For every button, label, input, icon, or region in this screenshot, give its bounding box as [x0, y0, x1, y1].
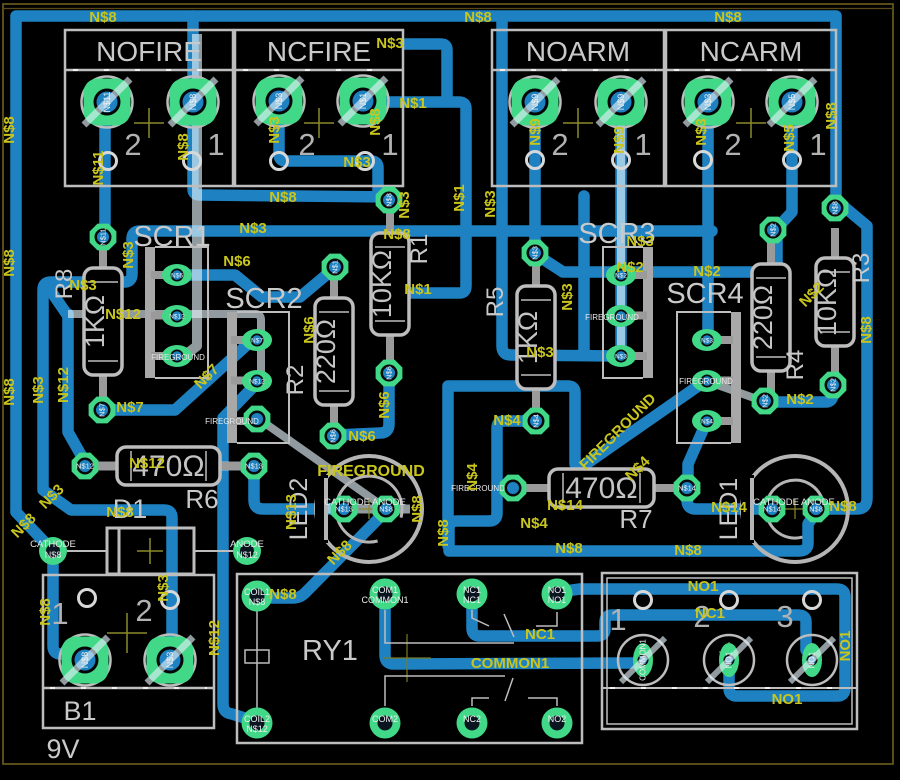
svg-text:2: 2 [124, 127, 141, 162]
svg-text:N$2: N$2 [761, 394, 770, 408]
wire N$8 NOFIRE1 up [187, 16, 199, 102]
wire N$8 LED2 diag [261, 511, 386, 598]
pad R3-top [822, 195, 849, 222]
label FIREGROUND SCR2 [205, 417, 259, 426]
net label N$8 [106, 504, 134, 521]
pad SCR2-1 [242, 329, 272, 351]
svg-text:N$6: N$6 [329, 429, 338, 443]
svg-text:COMMON1: COMMON1 [471, 655, 549, 672]
net label N$8 [714, 9, 742, 26]
wire NC1 route [472, 596, 806, 650]
wire N$2 R3bot to R4bot [767, 387, 833, 402]
svg-text:CATHODE ANODE: CATHODE ANODE [324, 497, 406, 508]
svg-text:FIREGROUND: FIREGROUND [151, 353, 205, 362]
svg-text:NO1: NO1 [837, 631, 854, 662]
label LED1 [715, 478, 743, 541]
net label N$14 [711, 499, 748, 516]
svg-text:CATHODE: CATHODE [30, 539, 76, 550]
net label NO1 [837, 631, 854, 662]
pad NOFIRE-1 [168, 77, 219, 128]
wire N$8 cathode diag [16, 512, 50, 548]
net label N$12 [206, 620, 223, 656]
svg-text:N$14: N$14 [711, 499, 748, 516]
net label N$3 [155, 574, 172, 602]
svg-text:N$12: N$12 [129, 455, 165, 472]
pad J2-2 [704, 635, 754, 685]
wire N$12 SCR2 to COIL2 [223, 384, 256, 720]
svg-text:N$8: N$8 [175, 133, 192, 161]
svg-text:NOFIRE: NOFIRE [96, 36, 202, 67]
svg-text:N$11: N$11 [102, 92, 112, 113]
svg-text:R4: R4 [782, 350, 809, 381]
pad RY1-COM1 [362, 579, 409, 610]
net label N$8 [8, 510, 39, 541]
svg-text:N$8: N$8 [89, 9, 117, 26]
svg-text:N$8: N$8 [45, 550, 62, 560]
pad RY1-COIL1 [242, 581, 273, 612]
hole marker NCARM-1h [784, 152, 801, 169]
svg-text:N$8: N$8 [80, 652, 90, 669]
svg-text:N$8: N$8 [249, 597, 266, 607]
svg-text:N$5: N$5 [787, 94, 797, 111]
pin number 3 [776, 599, 793, 634]
resistor R4 [748, 234, 809, 401]
net label N$13 [283, 494, 300, 530]
svg-text:N$7: N$7 [251, 338, 263, 345]
svg-text:NC1: NC1 [463, 595, 481, 605]
resistor R6 [89, 447, 248, 514]
pin number 1 [51, 596, 68, 631]
hole marker NOARM-2h [527, 152, 544, 169]
pad LED1-anode [803, 496, 830, 523]
net label N$6 [348, 428, 376, 445]
svg-text:N$14: N$14 [547, 497, 584, 514]
svg-text:N$8: N$8 [383, 226, 411, 243]
net label N$1 [451, 184, 468, 212]
svg-text:2: 2 [135, 593, 152, 628]
net label N$3 [376, 35, 404, 52]
pad R5-bot [523, 408, 550, 435]
svg-text:N$12: N$12 [206, 620, 223, 656]
svg-text:N$3: N$3 [376, 35, 404, 52]
svg-text:COM2: COM2 [372, 714, 398, 724]
svg-text:N$1: N$1 [331, 260, 340, 274]
hole marker NOFIRE-1h [184, 153, 201, 170]
pad RY1-NC1 [457, 579, 488, 610]
resistor R7 [521, 469, 682, 534]
wire N$4 center vertical [442, 388, 454, 546]
wire COMMON1 route [385, 596, 638, 664]
net label N$3 [30, 376, 47, 404]
pin number 1 [381, 127, 398, 162]
svg-text:NO1: NO1 [725, 651, 734, 668]
net label N$4 [464, 463, 481, 491]
pad LED2-cathode [331, 496, 358, 523]
svg-text:N$3: N$3 [482, 190, 499, 218]
svg-text:N$12: N$12 [76, 462, 94, 471]
net label N$9 [611, 126, 628, 154]
svg-text:N$8: N$8 [831, 201, 840, 215]
pad R4-top [760, 217, 787, 244]
pad RY1-NO2 [542, 708, 573, 739]
svg-text:N$8: N$8 [269, 586, 297, 603]
svg-text:220Ω: 220Ω [748, 285, 778, 350]
terminal block J2 outline [602, 573, 857, 729]
svg-text:N$4: N$4 [493, 412, 521, 429]
svg-text:COIL1: COIL1 [244, 587, 270, 597]
net label N$8 [823, 102, 840, 130]
hole marker J2-3h [804, 592, 821, 609]
svg-text:N$8: N$8 [823, 102, 840, 130]
pin number 1 [634, 127, 651, 162]
wire N$8 right rail jog [818, 200, 867, 509]
net label N$6 [301, 316, 318, 344]
svg-text:N$3: N$3 [615, 354, 627, 361]
wire N$3 x584 vertical [578, 196, 590, 352]
svg-text:N$12: N$12 [246, 724, 268, 734]
svg-text:N$14: N$14 [678, 484, 696, 493]
thyristor SCR2 outline [225, 283, 302, 443]
net label N$11 [90, 150, 107, 185]
pad R7-right [674, 475, 701, 502]
wire N$3 x43 to x68 diag [46, 284, 68, 316]
svg-text:COM1: COM1 [372, 585, 398, 595]
net label N$12 [105, 306, 141, 323]
net label N$8 [269, 189, 297, 206]
svg-text:N$3: N$3 [396, 191, 413, 219]
net label N$8 [829, 498, 857, 515]
hole marker J2-2h [721, 592, 738, 609]
net label N$6 [223, 253, 251, 270]
svg-text:N$6: N$6 [223, 253, 251, 270]
svg-text:CATHODE ANODE: CATHODE ANODE [753, 497, 835, 508]
svg-text:N$8: N$8 [409, 495, 426, 523]
svg-text:N$3: N$3 [266, 116, 283, 144]
pad SCR1-3 [162, 345, 192, 367]
svg-text:N$9: N$9 [616, 94, 626, 111]
svg-text:FIREGROUND: FIREGROUND [205, 417, 259, 426]
svg-text:9V: 9V [46, 734, 79, 764]
svg-text:N$3: N$3 [155, 574, 172, 602]
svg-text:N$12: N$12 [249, 379, 265, 386]
net label N$8 [269, 586, 297, 603]
svg-text:N$3: N$3 [626, 233, 654, 250]
pad NCFIRE-1 [338, 76, 389, 127]
svg-text:N$3: N$3 [343, 154, 371, 171]
pad SCR4-1 [692, 329, 722, 351]
hole marker NCFIRE-2h [271, 153, 288, 170]
svg-text:2: 2 [298, 127, 315, 162]
wire N$3 main horizontal [43, 231, 712, 650]
hole marker NOFIRE-2h [100, 153, 117, 170]
pad D1-anode [233, 537, 261, 565]
pad NCARM-1 [767, 77, 818, 128]
net label N$3 [239, 220, 267, 237]
wire N$14 R7 to LED1 [687, 490, 770, 509]
svg-text:NO1: NO1 [548, 585, 567, 595]
label CATHODE ANODE LED1 [753, 497, 835, 508]
wire N$8 bottom horizontal [449, 512, 816, 551]
pad SCR3-3 [606, 345, 636, 367]
pad D1-cathode [39, 537, 67, 565]
svg-text:NO1: NO1 [548, 595, 567, 605]
label LED2 [285, 478, 313, 541]
pad R1-top [376, 187, 403, 214]
svg-text:NO1: NO1 [688, 578, 719, 595]
svg-text:N$6: N$6 [376, 391, 393, 419]
wire FIREGROUND SCR4 diag (top copper) [709, 382, 757, 399]
svg-text:N$8: N$8 [37, 598, 54, 626]
svg-text:1: 1 [609, 602, 626, 637]
svg-text:1: 1 [207, 127, 224, 162]
svg-text:N$9: N$9 [611, 126, 628, 154]
label CATHODE ANODE LED2 [324, 497, 406, 508]
svg-text:SCR1: SCR1 [133, 221, 210, 253]
svg-text:N$11: N$11 [99, 228, 108, 245]
wire N$9 NOARM1 down [615, 102, 627, 354]
wire N$12 top link (top copper) [68, 314, 261, 376]
label N$12 D1 [236, 550, 258, 560]
svg-text:N$8: N$8 [1, 116, 18, 144]
net label N$2 [786, 391, 814, 408]
net label N$8 [383, 226, 411, 243]
pin number 2 [135, 593, 152, 628]
net label N$3 [36, 481, 67, 512]
pad NOARM-1 [596, 77, 647, 128]
pad NCFIRE-2 [254, 76, 305, 127]
net label COMMON1 [471, 655, 549, 672]
pad B1-1 [60, 635, 111, 686]
wire N$3 x502 vertical [502, 18, 618, 356]
pad SCR1-1 [162, 264, 192, 286]
pin number 1 [809, 127, 826, 162]
svg-text:N$3: N$3 [526, 344, 554, 361]
svg-text:N$2: N$2 [829, 378, 838, 392]
svg-text:R5: R5 [482, 287, 509, 318]
pad NOARM-2 [510, 77, 561, 128]
svg-text:FIREGROUND: FIREGROUND [317, 463, 425, 480]
svg-text:N$4: N$4 [701, 419, 713, 426]
svg-text:N$8: N$8 [435, 519, 452, 547]
pad R2-bot [320, 423, 347, 450]
net label N$8 [555, 540, 583, 557]
net label N$8 [89, 9, 117, 26]
net label N$12 [129, 455, 165, 472]
wire N$13 LED2 cathode [254, 474, 344, 509]
LED LED1 outline [741, 456, 848, 562]
svg-text:N$12: N$12 [55, 367, 72, 403]
svg-text:N$8: N$8 [714, 9, 742, 26]
net label N$3 [69, 277, 97, 294]
pad RY1-COIL2 [242, 708, 273, 739]
hole marker B1-2h [162, 592, 179, 609]
wire N$1 jog [406, 44, 447, 98]
net label N$9 [527, 118, 544, 146]
thyristor SCR3 outline [578, 218, 655, 378]
svg-text:3: 3 [776, 599, 793, 634]
svg-text:N$6: N$6 [171, 273, 183, 280]
pad RY1-NC2 [457, 708, 488, 739]
wire N$12 left vertical [68, 314, 85, 462]
net label N$2 [616, 259, 644, 276]
label FIREGROUND R7 [451, 484, 505, 493]
hole marker NCARM-2h [695, 152, 712, 169]
svg-text:N$11: N$11 [90, 150, 107, 185]
svg-text:N$12: N$12 [169, 314, 185, 321]
pad SCR4-2 [692, 370, 722, 392]
net label N$3 [482, 190, 499, 218]
net label N$3 [559, 283, 576, 311]
svg-text:N$3: N$3 [559, 283, 576, 311]
pad R7-left [500, 475, 527, 502]
label FIREGROUND SCR3 [585, 313, 639, 322]
svg-text:NC1: NC1 [463, 585, 481, 595]
svg-text:N$1: N$1 [451, 184, 468, 212]
terminal block NCFIRE [235, 30, 403, 186]
svg-text:N$4: N$4 [520, 515, 548, 532]
svg-text:NO1: NO1 [808, 651, 817, 668]
net label NO1 [772, 691, 803, 708]
svg-text:N$8: N$8 [1, 378, 18, 406]
diode D1 [67, 494, 238, 574]
svg-text:COMMON1: COMMON1 [639, 639, 648, 681]
net label N$3 [626, 233, 654, 250]
resistor R3 [812, 228, 875, 376]
svg-text:N$3: N$3 [703, 94, 713, 111]
pad SCR2-FIREGROUND [244, 406, 271, 433]
label CATHODE D1 [30, 539, 76, 550]
svg-text:N$1: N$1 [399, 95, 427, 112]
wire N$14 SCR4 to R7 [688, 423, 706, 480]
wire N$8 cathode to B1 [53, 556, 85, 658]
net label N$8 [435, 519, 452, 547]
svg-text:N$3: N$3 [165, 652, 175, 669]
svg-text:N$8: N$8 [829, 498, 857, 515]
svg-text:FIREGROUND: FIREGROUND [585, 313, 639, 322]
net label N$8 [464, 9, 492, 26]
svg-text:N$8: N$8 [1, 249, 18, 277]
wire N$6 R1 to R2 [336, 375, 389, 435]
svg-text:N$3: N$3 [30, 376, 47, 404]
svg-text:1: 1 [809, 127, 826, 162]
svg-text:2: 2 [551, 127, 568, 162]
svg-text:N$12: N$12 [105, 306, 141, 323]
wire N$7 R8 to SCR2 [102, 344, 248, 410]
net label N$3 [343, 154, 371, 171]
wire N$1 NCFIRE1 down [363, 102, 466, 293]
svg-text:N$8: N$8 [385, 193, 394, 207]
svg-text:NC1: NC1 [695, 605, 725, 622]
wire LED2 light band (top copper) [320, 505, 410, 514]
svg-text:N$8: N$8 [269, 189, 297, 206]
svg-text:B1: B1 [63, 696, 96, 726]
svg-text:SCR2: SCR2 [225, 283, 302, 315]
pad B1-2 [145, 635, 196, 686]
resistor R5 [482, 256, 555, 419]
pin number 2 [693, 599, 710, 634]
LED LED2 outline [315, 456, 422, 562]
wire N$4 R5bot route [449, 421, 536, 546]
pad SCR3-2 [606, 305, 636, 327]
svg-text:N$9: N$9 [530, 94, 540, 111]
pin number 1 [609, 602, 626, 637]
wire N$6 SCR1 link [177, 271, 331, 297]
terminal block NCARM [666, 30, 836, 186]
pad SCR3-1 [606, 264, 636, 286]
net label N$3 [396, 191, 413, 219]
pad SCR1-2 [162, 305, 192, 327]
net label N$3 [120, 241, 137, 269]
svg-text:N$8: N$8 [367, 108, 384, 136]
wire N$8 NOFIRE1 to R1 [193, 102, 389, 197]
net label NO1 [688, 578, 719, 595]
svg-text:N$2: N$2 [693, 263, 721, 280]
svg-text:2: 2 [724, 127, 741, 162]
pad J2-1 [618, 635, 668, 685]
wire N$5 NCARM1 down [779, 102, 792, 226]
net label N$7 [116, 399, 144, 416]
wire FIREGROUND NOFIRE1 column (top copper) [184, 34, 197, 356]
svg-text:N$3: N$3 [69, 277, 97, 294]
label FIREGROUND SCR4 [679, 377, 733, 386]
pad R8-bot [89, 397, 116, 424]
pin number 1 [207, 127, 224, 162]
net label N$3 [526, 344, 554, 361]
svg-text:NC1: NC1 [525, 626, 555, 643]
net label N$7 [191, 361, 222, 392]
svg-text:COMMON1: COMMON1 [362, 595, 409, 605]
wire FIREGROUND SCR2-LED2 diag (top copper) [259, 419, 384, 507]
wire N$3 NOARM2 down [529, 102, 541, 248]
net label N$8 [324, 537, 355, 568]
label N$8 D1 [45, 550, 62, 560]
svg-text:1: 1 [634, 127, 651, 162]
wire NO1 route [558, 589, 845, 696]
svg-text:NCFIRE: NCFIRE [267, 36, 371, 67]
net label N$14 [547, 497, 584, 514]
pad RY1-NO1 [542, 579, 573, 610]
net label N$12 [55, 367, 72, 403]
pad J2-3 [787, 635, 837, 685]
svg-text:N$3: N$3 [274, 93, 284, 110]
svg-text:N$3: N$3 [120, 241, 137, 269]
svg-text:ANODE: ANODE [230, 539, 264, 550]
resistor R1 [367, 203, 433, 365]
svg-text:NCARM: NCARM [700, 36, 803, 67]
net label N$4 [622, 453, 654, 485]
wire N$2 R4top rail [540, 240, 777, 272]
pad R2-top [322, 254, 349, 281]
net label N$8 [367, 108, 384, 136]
svg-text:RY1: RY1 [302, 635, 358, 667]
pad R6-right [241, 453, 268, 480]
svg-text:R3: R3 [848, 253, 875, 284]
net label NC1 [525, 626, 555, 643]
net label N$8 [409, 495, 426, 523]
pin number 2 [551, 127, 568, 162]
svg-text:N$4: N$4 [532, 414, 541, 428]
net label N$3 [693, 118, 710, 146]
svg-text:N$3: N$3 [531, 246, 540, 260]
svg-text:N$3: N$3 [239, 220, 267, 237]
pad R4-bot [752, 388, 779, 415]
terminal block NOFIRE [65, 30, 233, 186]
svg-text:N$3: N$3 [701, 338, 713, 345]
net label N$8 [1, 116, 18, 144]
net label FIREGROUND [576, 390, 659, 473]
battery B1 outline [43, 575, 214, 764]
pad R3-bot [820, 372, 847, 399]
